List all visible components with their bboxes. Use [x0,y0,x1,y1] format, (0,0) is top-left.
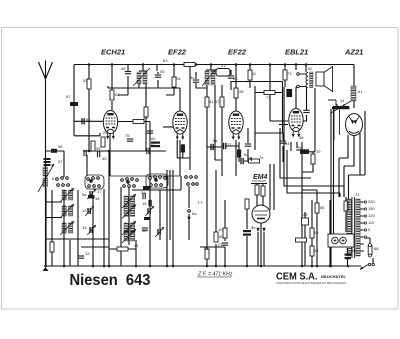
svg-text:41: 41 [134,243,139,248]
svg-text:31: 31 [141,190,146,195]
svg-text:05: 05 [160,69,165,74]
svg-text:64: 64 [314,248,319,253]
svg-text:AZ21: AZ21 [344,48,363,57]
svg-text:62: 62 [308,66,313,71]
svg-text:52: 52 [115,92,120,97]
svg-text:21: 21 [221,63,226,68]
svg-text:6a: 6a [192,211,197,216]
svg-text:17: 17 [97,189,102,194]
svg-text:56: 56 [320,205,325,210]
svg-text:76: 76 [297,145,302,150]
svg-text:EF22: EF22 [228,48,247,57]
svg-text:38: 38 [299,135,304,140]
svg-text:1b: 1b [243,152,248,157]
svg-text:18: 18 [95,196,100,201]
svg-text:27: 27 [218,242,223,247]
svg-text:15: 15 [142,201,147,206]
svg-text:110: 110 [368,220,375,225]
svg-text:ECH21: ECH21 [101,48,125,57]
svg-text:3b: 3b [251,225,256,230]
svg-text:EF22: EF22 [168,48,187,57]
svg-text:58: 58 [204,246,209,251]
svg-text:EM4: EM4 [253,174,268,181]
svg-text:72: 72 [355,192,360,197]
svg-text:Z.F. = 471 KHz: Z.F. = 471 KHz [197,272,233,278]
svg-text:51: 51 [83,78,88,83]
svg-text:63: 63 [163,58,168,63]
svg-text:125: 125 [368,213,375,218]
svg-text:33: 33 [143,115,148,120]
svg-text:13: 13 [82,225,87,230]
svg-text:34: 34 [285,141,290,146]
svg-text:5a: 5a [82,192,87,197]
svg-text:06: 06 [233,76,238,81]
svg-text:41: 41 [209,99,214,104]
svg-text:7e: 7e [259,155,264,160]
svg-text:EBL21: EBL21 [285,48,308,57]
svg-text:46: 46 [352,248,357,253]
svg-text:25: 25 [103,130,108,135]
svg-text:150: 150 [368,206,375,211]
svg-text:77: 77 [266,95,271,100]
svg-text:68: 68 [374,246,379,251]
svg-text:45: 45 [121,66,126,71]
svg-text:37: 37 [227,142,232,147]
svg-text:47: 47 [150,143,155,148]
svg-text:12: 12 [82,208,87,213]
svg-text:60: 60 [219,234,224,239]
svg-text:19: 19 [85,251,90,256]
svg-text:39: 39 [96,146,101,151]
svg-text:73: 73 [287,71,292,76]
svg-text:50: 50 [314,230,319,235]
svg-text:61: 61 [358,89,363,94]
svg-text:3x: 3x [190,75,194,80]
svg-text:9a: 9a [86,117,91,122]
svg-text:T.T.: T.T. [197,200,203,205]
svg-text:26: 26 [239,89,244,94]
svg-text:220: 220 [368,199,375,204]
svg-text:NEUCHATEL: NEUCHATEL [321,274,347,279]
svg-text:29: 29 [316,149,321,154]
svg-text:CONSTRUCTIONS ELECTRIQUES ET M: CONSTRUCTIONS ELECTRIQUES ET MECANIQUES [276,281,346,285]
svg-text:49: 49 [303,212,308,217]
svg-text:67: 67 [66,94,71,99]
svg-text:56: 56 [58,144,63,149]
svg-text:57: 57 [215,99,220,104]
svg-text:10: 10 [218,227,223,232]
svg-text:8a: 8a [213,138,218,143]
svg-text:7a: 7a [176,76,181,81]
svg-text:75: 75 [125,133,130,138]
svg-text:Niesen 643: Niesen 643 [70,272,151,289]
svg-text:40: 40 [102,156,107,161]
svg-text:57: 57 [58,159,63,164]
svg-text:14: 14 [340,98,345,103]
svg-text:16: 16 [142,228,147,233]
svg-text:62: 62 [151,136,156,141]
